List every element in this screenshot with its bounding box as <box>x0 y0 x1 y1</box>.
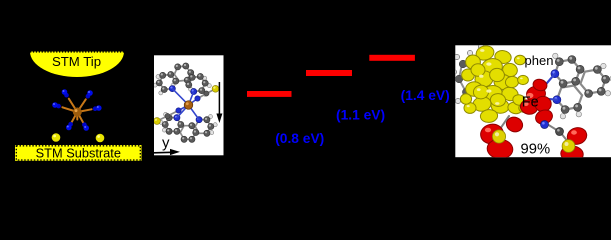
left phen skeleton <box>451 44 490 103</box>
yellow spin density isosurface <box>460 44 529 123</box>
svg-text:(1.1 eV): (1.1 eV) <box>336 107 385 122</box>
STM tip electrode <box>30 52 124 78</box>
svg-text:y: y <box>162 135 170 152</box>
svg-text:STM Tip: STM Tip <box>52 54 101 69</box>
energy level 1 <box>247 91 292 97</box>
red spin density isosurface <box>479 74 589 163</box>
energy level 3 <box>369 55 415 61</box>
z-axis arrow (down) <box>216 82 222 123</box>
svg-text:Fe: Fe <box>522 95 539 111</box>
svg-text:(1.4 eV): (1.4 eV) <box>401 88 450 103</box>
anchor atom S1 <box>52 133 61 142</box>
energy level 2 <box>306 70 352 76</box>
crystal structure panel <box>154 55 224 155</box>
svg-text:phen: phen <box>525 53 554 68</box>
right phen ball-and-stick <box>551 53 611 119</box>
anchor atom S2 <box>96 134 105 143</box>
svg-text:99%: 99% <box>521 142 551 158</box>
x-axis arrow <box>154 149 180 155</box>
svg-text:(0.8 eV): (0.8 eV) <box>275 131 324 146</box>
molecule between electrodes <box>52 89 101 131</box>
svg-text:STM Substrate: STM Substrate <box>36 145 121 160</box>
Cu(phen)2(NCS)2 crystal structure <box>153 63 219 142</box>
STM substrate electrode <box>15 145 142 161</box>
spin density panel <box>455 45 611 157</box>
